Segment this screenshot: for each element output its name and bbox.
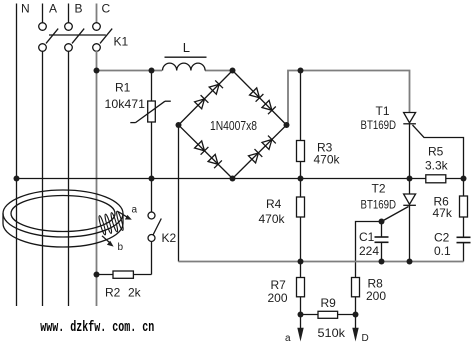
svg-text:R7: R7	[271, 278, 287, 292]
junction T2 cathode / lower bus	[407, 259, 413, 265]
svg-text:47k: 47k	[433, 206, 453, 220]
diode bridge D1	[195, 95, 209, 109]
junction bridge AC top corner	[230, 68, 236, 74]
node B line top stub	[68, 4, 70, 23]
svg-text:R4: R4	[266, 197, 282, 211]
junction bridge DC plus corner	[284, 122, 290, 128]
diode bridge D5	[195, 141, 209, 155]
switch K1 linkage bar	[49, 34, 106, 36]
wire T2 gate to R8	[356, 222, 382, 278]
svg-text:A: A	[49, 2, 57, 16]
thyristor T1	[403, 113, 463, 179]
wire R3 column	[300, 71, 302, 141]
wire bottom node row	[301, 314, 356, 316]
junction T1 cathode T2 anode / middle bus	[407, 176, 413, 182]
diode bridge legs	[179, 71, 287, 179]
wire bridge right riser and top bus right segment (gray)	[287, 71, 410, 125]
switch K2	[148, 179, 161, 275]
resistor R3	[297, 141, 305, 162]
wire top bus left segment (gray)	[97, 70, 233, 72]
svg-text:470k: 470k	[314, 153, 341, 167]
svg-text:470k: 470k	[259, 212, 286, 226]
inductor L	[163, 57, 207, 70]
svg-text:224: 224	[359, 244, 379, 258]
svg-text:3.3k: 3.3k	[425, 159, 449, 173]
resistor R4	[297, 179, 305, 262]
wire bridge left column down to lower bus	[178, 125, 180, 262]
transformer winding	[98, 211, 124, 236]
capacitor C1	[375, 222, 389, 262]
svg-text:T1: T1	[376, 104, 390, 118]
svg-text:200: 200	[366, 289, 386, 303]
junction N / middle bus	[14, 176, 20, 182]
diode bridge D3	[250, 88, 264, 102]
svg-text:R9: R9	[321, 296, 337, 310]
node A line lower	[42, 51, 44, 306]
node B line lower	[68, 51, 70, 306]
junction R3-R4 / middle bus	[298, 176, 304, 182]
junction T2 gate node	[379, 219, 385, 225]
switch K1 pole C	[93, 23, 113, 52]
svg-text:BT169D: BT169D	[361, 198, 397, 212]
svg-text:10k471: 10k471	[105, 97, 146, 111]
junction R1 / top bus	[149, 68, 155, 74]
resistor R2	[97, 271, 152, 278]
thyristor T2	[382, 179, 416, 262]
capacitor C2	[457, 237, 471, 261]
terminal b arrow	[352, 315, 358, 342]
svg-text:K2: K2	[162, 231, 177, 245]
junction K2 branch / middle bus	[149, 176, 155, 182]
svg-text:200: 200	[268, 291, 288, 305]
winding lead b	[102, 236, 114, 247]
svg-text:L: L	[183, 40, 190, 55]
resistor R5	[426, 175, 446, 183]
svg-text:0.1: 0.1	[434, 244, 451, 258]
junction bridge DC minus corner	[176, 122, 182, 128]
svg-text:510k: 510k	[318, 326, 347, 340]
svg-text:C1: C1	[359, 230, 375, 244]
svg-text:N: N	[21, 2, 30, 16]
diode bridge D6	[208, 154, 222, 168]
diode bridge D2	[209, 80, 223, 94]
junction C1 / lower bus	[379, 259, 385, 265]
varistor R1	[130, 71, 171, 179]
resistor R8	[352, 278, 360, 297]
junction bridge AC bottom corner / middle bus	[230, 176, 236, 182]
svg-text:C2: C2	[434, 231, 450, 245]
switch K1 pole B	[65, 23, 85, 52]
svg-text:D: D	[362, 333, 369, 344]
junction R3 branch / top bus	[298, 68, 304, 74]
winding lead a	[118, 212, 132, 220]
svg-text:b: b	[118, 242, 124, 253]
current transformer toroid	[3, 190, 123, 247]
svg-text:K1: K1	[114, 35, 129, 49]
switch K1 pole A	[39, 23, 59, 52]
wire lower bus (gray)	[179, 261, 464, 263]
junction C phase / top bus	[94, 68, 100, 74]
svg-text:T2: T2	[372, 182, 386, 196]
resistor R9	[318, 311, 338, 318]
svg-text:a: a	[285, 333, 291, 344]
diode bridge D4	[262, 100, 276, 114]
svg-text:B: B	[75, 2, 83, 16]
svg-text:2k: 2k	[128, 286, 142, 300]
diode bridge D8	[262, 136, 276, 150]
svg-text:C: C	[102, 2, 111, 16]
wire C column (gray)	[96, 51, 98, 306]
terminal a arrow	[297, 315, 303, 342]
svg-text:R1: R1	[115, 81, 131, 95]
resistor R6	[460, 179, 468, 238]
junction C phase / R2	[94, 272, 100, 278]
svg-text:BT169D: BT169D	[361, 118, 397, 132]
svg-text:www. dzkfw. com. cn: www. dzkfw. com. cn	[40, 320, 154, 336]
junction R7 R9 terminal a node	[298, 312, 304, 318]
node A line top stub	[42, 4, 44, 23]
node C line top stub	[96, 4, 98, 23]
junction R8 R9 terminal b node	[353, 312, 359, 318]
junction R5 R6 / middle bus	[461, 176, 467, 182]
svg-text:R2: R2	[105, 286, 121, 300]
wire middle bus	[17, 178, 464, 180]
junction R4-R7 / lower bus	[298, 259, 304, 265]
svg-text:a: a	[132, 205, 138, 216]
svg-text:R5: R5	[428, 145, 444, 159]
diode bridge D7	[249, 149, 263, 163]
node N line	[16, 4, 18, 307]
svg-text:1N4007x8: 1N4007x8	[210, 118, 257, 133]
resistor R7	[297, 262, 305, 315]
